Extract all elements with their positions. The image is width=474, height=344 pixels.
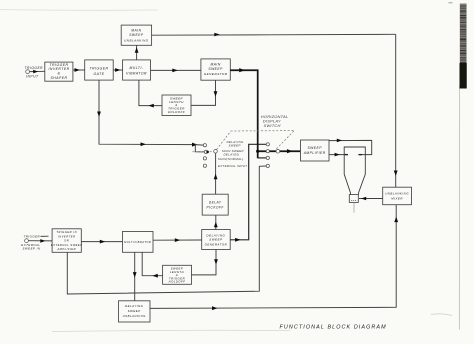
box DELAYING SWEEP GENERATOR [202,230,231,250]
wire sweep amplifier to CRT right deflection plate [329,139,372,155]
junction arrow at switch row 1 feed [192,143,198,147]
svg-text:TRIGGER: TRIGGER [90,66,109,70]
box TRIGGER INVERTER & SHAPER [45,62,73,81]
label MAIN SWEEP DELAYED position [222,149,245,156]
box UNBLANKING MIXER [383,187,412,205]
wire trigger input to inverter [30,70,45,74]
wire sweep amplifier to CRT left deflection plate [329,153,348,157]
svg-text:TRIGGER: TRIGGER [23,234,40,238]
switch wiper pivot (left section) [214,150,218,154]
junction main sweep bus / wiper [256,150,259,153]
svg-text:SWITCH: SWITCH [264,123,281,128]
wire amplifier to multivibrator (delaying) [81,240,122,244]
switch contact: main sweep delayed (left) [204,150,207,153]
svg-text:MAIN: MAIN [210,62,220,66]
switch contact dot (made contact row 2) [206,151,209,154]
svg-text:FUNCTIONAL BLOCK DIAGRAM: FUNCTIONAL BLOCK DIAGRAM [280,324,387,330]
svg-text:AMPLIFIER: AMPLIFIER [303,151,326,155]
scan artifact: binding bar top right [449,2,467,89]
svg-text:HOLDOFF: HOLDOFF [168,110,185,114]
wire delay pickoff up to switch contact [214,153,218,194]
scan artifact: faint bottom smudge [52,330,290,331]
CRT electron gun [349,195,358,203]
svg-text:MAIN: MAIN [131,28,141,32]
svg-text:MULTIVIBRATOR: MULTIVIBRATOR [124,240,151,244]
wire main sweep unblanking to unblanking mixer (top run) [152,33,396,37]
wire branch down to main-sweep-delayed contact [195,145,204,152]
wire generator bottom to sweep length holdoff (delaying) [192,250,218,275]
switch contact: external input (right) [266,164,269,167]
switch mechanical linkage (dashed) [192,131,293,152]
wire multivibrator down to delaying sweep unblanking [133,252,137,300]
wire delaying sweep unblanking to unblanking mixer [150,205,398,310]
scan artifact: faint pencil smudge bottom right [431,314,452,316]
switch contact: delaying sweep (left) [203,144,206,147]
wire sweep length holdoff back to multivibrator [139,80,162,107]
wire generator up to delay pickoff [214,215,218,229]
svg-text:EXTERNAL INPUT: EXTERNAL INPUT [218,164,248,168]
svg-text:TRIGGER IN: TRIGGER IN [56,230,77,234]
wire ext sweep amplifier to external-input switch contact [67,166,266,294]
switch contact: delaying sweep (right) [266,143,269,146]
svg-text:HOLDOFF: HOLDOFF [169,280,186,284]
svg-text:UNBLANKING: UNBLANKING [123,314,147,318]
svg-text:SWEEP: SWEEP [209,238,222,242]
switch contact: main normal (left) [203,157,206,160]
svg-text:GENERATOR: GENERATOR [204,72,228,76]
switch wiper pivot (right section) [276,149,280,153]
svg-text:SHAPER: SHAPER [51,76,68,80]
svg-text:DELAYED: DELAYED [224,153,240,157]
CRT envelope [344,147,365,195]
CRT left deflection plate [345,154,348,156]
wire generator right to delaying-sweep switch contact [230,144,266,241]
CRT gun lead [353,202,355,212]
svg-text:VIBRATOR: VIBRATOR [126,72,147,76]
CRT right deflection plate [358,154,362,156]
svg-text:MULTI-: MULTI- [129,66,143,70]
label DELAYING SWEEP position [227,140,244,148]
box MULTIVIBRATOR (main sweep) [123,60,151,80]
box DELAY PICKOFF [202,194,228,215]
wire multivibrator up to main sweep unblanking [135,45,139,60]
svg-text:&: & [58,71,61,75]
svg-text:PICKOFF: PICKOFF [207,205,225,209]
svg-text:SWEEP: SWEEP [128,309,141,313]
svg-text:DELAYING: DELAYING [206,233,225,237]
svg-text:UNBLANKING: UNBLANKING [385,192,409,196]
box DELAYING SWEEP UNBLANKING [119,301,151,322]
wire wiper to sweep amplifier [258,149,301,153]
scan artifact: page edge line right [458,86,460,330]
box SWEEP AMPLIFIER [301,140,330,161]
node TRIGGER / EXTERNAL SWEEP IN connector [21,234,48,250]
wire trigger gate to multivibrator [113,68,122,72]
box SWEEP LENGTH & TRIGGER HOLDOFF (delaying) [163,265,192,284]
svg-text:SWEEP: SWEEP [307,146,322,150]
switch contact: main sweep delayed (right) [266,150,269,153]
svg-text:DELAYING: DELAYING [125,304,144,308]
svg-text:EXTERNAL SWEEP: EXTERNAL SWEEP [51,243,83,247]
wire main sweep generator bottom to sweep length holdoff [191,80,217,105]
wire junction to delaying-sweep left contact [195,144,203,147]
svg-text:MAIN(NORMAL): MAIN(NORMAL) [218,157,243,161]
svg-text:MIXER: MIXER [391,197,403,201]
svg-text:INVERTER: INVERTER [58,234,76,238]
svg-text:GATE: GATE [94,72,105,76]
svg-text:OR: OR [64,239,69,243]
wire ext input to amplifier box [29,239,53,243]
box TRIGGER GATE [85,60,114,80]
wire inverter to trigger gate [73,68,85,72]
wire unblanking mixer to CRT gun [359,197,383,201]
svg-text:SWEEP: SWEEP [129,33,144,37]
wire multivibrator to main sweep generator [151,69,201,73]
svg-text:SWEEP IN: SWEEP IN [22,246,40,250]
svg-text:UNBLANKING: UNBLANKING [124,39,149,43]
box MAIN SWEEP GENERATOR [201,59,230,80]
wire multivibrator to delaying sweep generator [153,238,202,242]
box SWEEP LENGTH & TRIGGER HOLDOFF (main) [162,95,191,116]
svg-text:DELAY: DELAY [209,200,222,204]
label HORIZONTAL DISPLAY SWITCH [261,114,288,128]
svg-text:TRIGGER: TRIGGER [25,66,44,70]
wire top unblanking run down to mixer [394,34,398,187]
svg-text:AMPLIFIER: AMPLIFIER [56,247,76,251]
box MAIN SWEEP UNBLANKING [121,25,151,45]
scan artifact: faint top smudge [0,9,158,12]
wire sweep length holdoff back to multivibrator (delaying) [142,252,162,277]
svg-text:SWEEP: SWEEP [208,67,223,71]
svg-text:INPUT: INPUT [26,75,39,79]
node TRIGGER INPUT connector [25,66,44,79]
svg-text:SWEEP: SWEEP [229,144,242,148]
box MULTIVIBRATOR (delaying sweep) [123,232,154,253]
svg-text:GENERATOR: GENERATOR [205,243,228,247]
switch contact: main normal (right) [266,156,269,159]
wire trigger gate down to display switch [97,80,195,146]
wire switch bus stub to main-normal contact [258,157,266,159]
switch contact: external input (left) [203,164,206,167]
wire main sweep generator to switch bus [230,68,257,158]
box TRIGGER INVERTER OR EXTERNAL SWEEP AMPLIFIER [51,229,83,253]
